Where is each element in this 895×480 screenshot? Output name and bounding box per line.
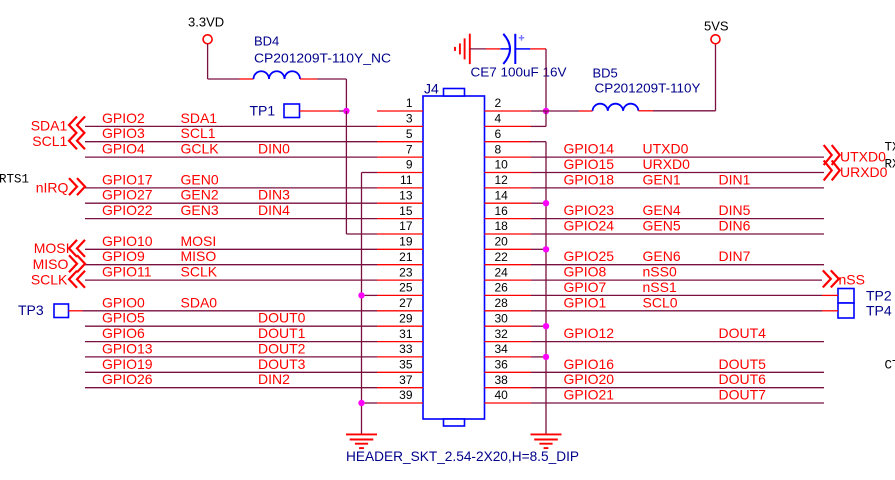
test point TP4 — [838, 303, 854, 318]
svg-text:TP2: TP2 — [866, 287, 892, 303]
wire net pin 24 — [531, 279, 822, 281]
svg-text:URXD0: URXD0 — [643, 156, 691, 172]
svg-text:27: 27 — [399, 296, 413, 310]
svg-text:17: 17 — [399, 219, 413, 233]
svg-text:DIN5: DIN5 — [719, 202, 751, 218]
wire 5V pin2 to node — [531, 110, 546, 112]
svg-text:GEN2: GEN2 — [181, 187, 219, 203]
svg-text:5VS: 5VS — [704, 19, 729, 34]
svg-text:19: 19 — [399, 235, 413, 249]
pin 14 stub — [485, 202, 532, 204]
junction GND pin 30 — [543, 323, 549, 329]
wire GND pin 34 — [531, 356, 546, 358]
junction GND pin 34 — [543, 354, 549, 360]
pin 21 stub — [377, 264, 423, 266]
wire net pin 7 — [85, 156, 377, 158]
svg-text:34: 34 — [495, 342, 509, 356]
svg-text:RTS1: RTS1 — [0, 173, 29, 187]
pin 18 stub — [485, 233, 532, 235]
svg-text:SCLK: SCLK — [181, 264, 218, 280]
svg-text:DIN1: DIN1 — [719, 171, 751, 187]
svg-text:DOUT3: DOUT3 — [258, 356, 306, 372]
wire net pin 13 — [85, 202, 377, 204]
wire pin26 to TP2 — [822, 294, 838, 296]
pin 26 stub — [485, 294, 532, 296]
svg-text:GPIO5: GPIO5 — [102, 310, 145, 326]
svg-text:SDA1: SDA1 — [181, 110, 218, 126]
svg-text:GPIO7: GPIO7 — [564, 279, 607, 295]
svg-text:21: 21 — [399, 250, 413, 264]
wire net pin 36 — [531, 371, 824, 373]
svg-text:GPIO27: GPIO27 — [102, 187, 153, 203]
svg-text:GPIO24: GPIO24 — [564, 218, 615, 234]
svg-text:GPIO16: GPIO16 — [564, 356, 615, 372]
svg-text:31: 31 — [399, 327, 413, 341]
node 5V junction — [543, 108, 549, 114]
power symbol 3.3VD — [203, 35, 212, 44]
svg-text:GPIO12: GPIO12 — [564, 325, 615, 341]
svg-text:SCL1: SCL1 — [181, 125, 216, 141]
port MOSI — [69, 240, 85, 257]
svg-text:39: 39 — [399, 388, 413, 402]
pin 38 stub — [485, 387, 532, 389]
pin 11 stub — [377, 187, 423, 189]
wire net pin 18 — [531, 233, 824, 235]
pin 37 stub — [377, 387, 423, 389]
svg-text:nIRQ: nIRQ — [36, 179, 69, 195]
svg-text:CP201209T-110Y: CP201209T-110Y — [595, 81, 701, 96]
svg-text:GPIO25: GPIO25 — [564, 248, 615, 264]
pin 8 stub — [485, 156, 532, 158]
wire net pin 32 — [531, 341, 824, 343]
svg-text:DIN3: DIN3 — [258, 187, 290, 203]
svg-text:CE7 100uF 16V: CE7 100uF 16V — [471, 65, 567, 80]
svg-text:MOSI: MOSI — [34, 240, 70, 256]
wire net pin 38 — [531, 387, 824, 389]
wire GND pin25 — [362, 294, 378, 296]
svg-text:32: 32 — [495, 327, 509, 341]
svg-text:38: 38 — [495, 373, 509, 387]
svg-text:CP201209T-110Y_NC: CP201209T-110Y_NC — [254, 51, 391, 66]
pin 1 stub — [377, 110, 423, 112]
wire net pin 22 — [531, 264, 824, 266]
wire 3V3 vertical to pin17 — [345, 111, 347, 234]
svg-text:GEN4: GEN4 — [643, 202, 681, 218]
junction GND pin 20 — [543, 246, 549, 252]
wire net pin 33 — [85, 356, 377, 358]
svg-text:DOUT1: DOUT1 — [258, 325, 306, 341]
svg-text:TP3: TP3 — [18, 302, 44, 318]
pin 12 stub — [485, 187, 532, 189]
svg-text:GPIO3: GPIO3 — [102, 125, 145, 141]
wire net pin 8 — [531, 156, 824, 158]
wire net pin 28 — [531, 310, 822, 312]
svg-text:7: 7 — [406, 142, 413, 156]
wire net pin 27 — [83, 310, 378, 312]
svg-text:5: 5 — [406, 127, 413, 141]
svg-text:DOUT4: DOUT4 — [719, 325, 767, 341]
wire GND left vertical — [361, 173, 363, 435]
wire 3.3VD to BD4 — [207, 44, 209, 79]
pin 27 stub — [377, 310, 423, 312]
svg-text:J4: J4 — [424, 81, 439, 97]
svg-text:GPIO4: GPIO4 — [102, 141, 145, 157]
svg-text:18: 18 — [495, 219, 509, 233]
pin 23 stub — [377, 279, 423, 281]
wire GND pin39 — [362, 402, 378, 404]
junction GND pin39 — [358, 400, 364, 406]
pin 32 stub — [485, 341, 532, 343]
pin 35 stub — [377, 371, 423, 373]
svg-text:20: 20 — [495, 235, 509, 249]
svg-text:DIN6: DIN6 — [719, 218, 751, 234]
pin 7 stub — [377, 156, 423, 158]
svg-text:GPIO10: GPIO10 — [102, 233, 153, 249]
ground symbol left — [346, 433, 377, 435]
wire net pin 5 — [85, 141, 377, 143]
svg-text:40: 40 — [495, 388, 509, 402]
wire net pin 29 — [85, 325, 377, 327]
svg-text:22: 22 — [495, 250, 509, 264]
pin 33 stub — [377, 356, 423, 358]
pin 28 stub — [485, 310, 532, 312]
svg-text:3: 3 — [406, 112, 413, 126]
pin 19 stub — [377, 248, 423, 250]
pin 17 stub — [377, 233, 423, 235]
svg-text:GPIO17: GPIO17 — [102, 171, 153, 187]
svg-text:SDA0: SDA0 — [181, 294, 218, 310]
wire net pin 31 — [85, 341, 377, 343]
svg-text:TP4: TP4 — [866, 303, 892, 319]
wire node 5V to BD5 — [546, 110, 579, 112]
svg-text:GEN3: GEN3 — [181, 202, 219, 218]
pin 29 stub — [377, 325, 423, 327]
svg-text:SDA1: SDA1 — [31, 117, 68, 133]
svg-text:4: 4 — [495, 112, 502, 126]
svg-text:nSS0: nSS0 — [643, 264, 677, 280]
svg-text:GPIO0: GPIO0 — [102, 294, 145, 310]
wire net pin 35 — [85, 371, 377, 373]
wire GND pin9 — [362, 172, 378, 174]
svg-text:30: 30 — [495, 311, 509, 325]
svg-text:33: 33 — [399, 342, 413, 356]
svg-text:GPIO13: GPIO13 — [102, 340, 153, 356]
pin 16 stub — [485, 218, 532, 220]
junction GND pin25 — [358, 292, 364, 298]
wire BD4 to node 3V3 — [300, 78, 317, 80]
wire net pin 37 — [85, 387, 377, 389]
svg-text:DIN2: DIN2 — [258, 371, 290, 387]
svg-text:UTXD0: UTXD0 — [643, 141, 689, 157]
svg-text:SCLK: SCLK — [31, 272, 68, 288]
port nIRQ — [69, 178, 85, 195]
wire CE7 to node 5V — [515, 48, 530, 50]
svg-text:12: 12 — [495, 173, 509, 187]
wire BD5 to 5VS — [638, 110, 653, 112]
svg-text:SCL0: SCL0 — [643, 294, 678, 310]
port MISO — [69, 255, 85, 272]
svg-text:SCL1: SCL1 — [32, 133, 67, 149]
svg-text:MISO: MISO — [181, 248, 217, 264]
pin 20 stub — [485, 248, 532, 250]
wire net pin 15 — [85, 218, 377, 220]
svg-text:DIN4: DIN4 — [258, 202, 290, 218]
ground symbol right — [531, 433, 562, 435]
svg-text:GEN1: GEN1 — [643, 171, 681, 187]
pin 6 stub — [485, 141, 532, 143]
svg-text:23: 23 — [399, 265, 413, 279]
svg-text:GPIO21: GPIO21 — [564, 387, 615, 403]
svg-text:nSS1: nSS1 — [643, 279, 677, 295]
svg-text:GPIO2: GPIO2 — [102, 110, 145, 126]
pin 34 stub — [485, 356, 532, 358]
svg-text:DOUT7: DOUT7 — [719, 387, 767, 403]
junction GND pin 14 — [543, 200, 549, 206]
svg-text:8: 8 — [495, 142, 502, 156]
inductor BD5 — [593, 104, 639, 111]
svg-text:GPIO14: GPIO14 — [564, 141, 615, 157]
wire net pin 11 — [85, 187, 377, 189]
svg-text:24: 24 — [495, 265, 509, 279]
svg-text:GEN5: GEN5 — [643, 218, 681, 234]
pin 25 stub — [377, 294, 423, 296]
pin 31 stub — [377, 341, 423, 343]
svg-text:DIN0: DIN0 — [258, 141, 290, 157]
svg-text:TXD1: TXD1 — [885, 141, 895, 155]
svg-text:13: 13 — [399, 188, 413, 202]
pin 5 stub — [377, 141, 423, 143]
port SCL1 — [69, 132, 85, 149]
svg-text:GPIO18: GPIO18 — [564, 171, 615, 187]
pin 22 stub — [485, 264, 532, 266]
svg-text:TP1: TP1 — [250, 103, 276, 119]
wire TP1 to node 3V3 — [300, 110, 340, 112]
port UTXD0 — [824, 145, 840, 165]
svg-text:RXD1: RXD1 — [885, 158, 895, 172]
svg-text:GPIO8: GPIO8 — [564, 264, 607, 280]
svg-text:36: 36 — [495, 358, 509, 372]
svg-text:6: 6 — [495, 127, 502, 141]
svg-text:11: 11 — [400, 173, 413, 187]
pin 10 stub — [485, 172, 532, 174]
wire GND pin 30 — [531, 325, 546, 327]
wire net pin 26 — [531, 294, 822, 296]
wire GND right vertical — [545, 142, 547, 435]
test point TP2 — [838, 289, 854, 304]
port SDA1 — [69, 117, 85, 134]
svg-text:DOUT0: DOUT0 — [258, 310, 306, 326]
pin 2 stub — [485, 110, 532, 112]
svg-text:nSS: nSS — [839, 272, 865, 288]
svg-text:2: 2 — [495, 96, 502, 110]
pin 15 stub — [377, 218, 423, 220]
svg-text:GPIO1: GPIO1 — [564, 294, 607, 310]
svg-text:GPIO20: GPIO20 — [564, 371, 615, 387]
svg-text:HEADER_SKT_2.54-2X20,H=8.5_DIP: HEADER_SKT_2.54-2X20,H=8.5_DIP — [346, 449, 579, 464]
pin 9 stub — [377, 172, 423, 174]
wire pin28 to TP4 — [822, 310, 838, 312]
connector J4 body — [423, 96, 485, 419]
wire GND pin 20 — [531, 248, 546, 250]
port nSS — [823, 270, 839, 287]
pin 4 stub — [485, 125, 532, 127]
svg-text:26: 26 — [495, 281, 509, 295]
svg-text:GPIO11: GPIO11 — [102, 264, 152, 280]
ground symbol at CE7 — [469, 34, 471, 64]
wire net pin 12 — [531, 187, 824, 189]
wire GND pin 14 — [531, 202, 546, 204]
pin 13 stub — [377, 202, 423, 204]
svg-text:14: 14 — [495, 188, 509, 202]
svg-text:URXD0: URXD0 — [840, 164, 888, 180]
svg-text:GEN6: GEN6 — [643, 248, 681, 264]
pin 3 stub — [377, 125, 423, 127]
wire net pin 21 — [85, 264, 377, 266]
wire net pin 19 — [85, 248, 377, 250]
wire 5V pin2 to pin4 — [545, 111, 547, 126]
svg-text:1: 1 — [406, 96, 413, 110]
pin 40 stub — [485, 402, 532, 404]
svg-text:GPIO19: GPIO19 — [102, 356, 153, 372]
pin 24 stub — [485, 279, 532, 281]
wire net pin 23 — [85, 279, 377, 281]
svg-text:MOSI: MOSI — [181, 233, 217, 249]
wire GND pin6 — [530, 141, 546, 143]
svg-text:CTS1: CTS1 — [885, 359, 895, 373]
wire net pin 3 — [85, 125, 377, 127]
capacitor CE7 100uF 16V — [503, 34, 510, 64]
svg-text:GCLK: GCLK — [181, 141, 220, 157]
svg-text:GPIO23: GPIO23 — [564, 202, 615, 218]
svg-text:BD5: BD5 — [593, 66, 618, 81]
svg-text:25: 25 — [399, 281, 413, 295]
svg-text:16: 16 — [495, 204, 509, 218]
svg-text:GPIO15: GPIO15 — [564, 156, 615, 172]
wire TP3 to pin27 — [69, 310, 83, 312]
wire gnd to CE7 — [470, 48, 486, 50]
node 3V3 junction — [343, 108, 349, 114]
port SCLK — [69, 271, 85, 288]
svg-text:MISO: MISO — [33, 256, 69, 272]
svg-text:28: 28 — [495, 296, 509, 310]
svg-text:GPIO26: GPIO26 — [102, 371, 153, 387]
wire net pin 10 — [531, 172, 824, 174]
port URXD0 — [824, 160, 840, 180]
svg-text:3.3VD: 3.3VD — [188, 15, 224, 30]
svg-text:DOUT2: DOUT2 — [258, 340, 306, 356]
svg-text:37: 37 — [399, 373, 413, 387]
wire net pin 16 — [531, 218, 824, 220]
svg-text:15: 15 — [399, 204, 413, 218]
pin 39 stub — [377, 402, 423, 404]
svg-text:35: 35 — [399, 358, 413, 372]
svg-text:DOUT5: DOUT5 — [719, 356, 767, 372]
pin 30 stub — [485, 325, 532, 327]
svg-text:29: 29 — [399, 311, 413, 325]
svg-text:GPIO9: GPIO9 — [102, 248, 145, 264]
svg-text:DOUT6: DOUT6 — [719, 371, 767, 387]
pin 36 stub — [485, 371, 532, 373]
svg-text:GPIO22: GPIO22 — [102, 202, 153, 218]
svg-text:GEN0: GEN0 — [181, 171, 219, 187]
svg-text:10: 10 — [495, 158, 509, 172]
inductor BD4 — [254, 71, 301, 79]
svg-text:9: 9 — [406, 158, 413, 172]
svg-text:GPIO6: GPIO6 — [102, 325, 145, 341]
wire net pin 40 — [531, 402, 824, 404]
power symbol 5VS — [711, 35, 720, 44]
svg-text:UTXD0: UTXD0 — [840, 148, 886, 164]
svg-text:DIN7: DIN7 — [719, 248, 751, 264]
svg-text:BD4: BD4 — [254, 34, 279, 49]
